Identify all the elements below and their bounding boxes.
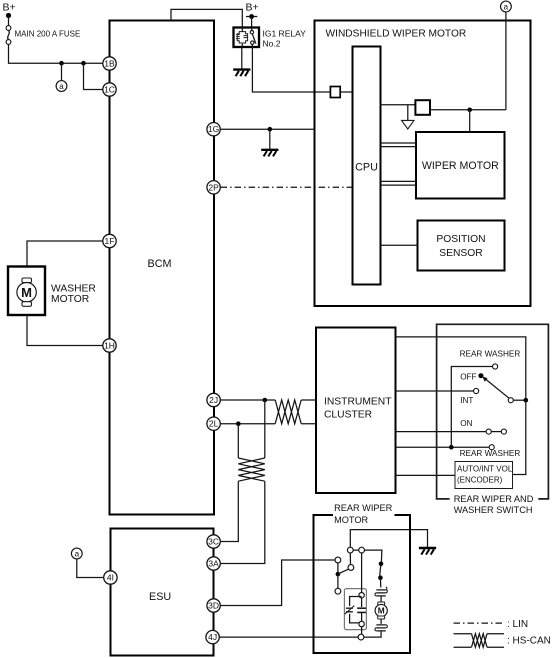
wire junctions down to lower twisted pair (238, 400, 264, 458)
pin 1H (103, 339, 116, 352)
wire H down to node I (361, 627, 363, 635)
pin 4I (104, 571, 117, 584)
POSITION SENSOR box (418, 221, 505, 271)
wire left of pair to 3C (221, 481, 239, 541)
node G (359, 593, 364, 598)
wire BCM top to IG1 relay coil (171, 9, 242, 27)
contact ON right (501, 429, 506, 434)
wire B+ to relay contact (251, 17, 253, 28)
junction dot on line4 (449, 445, 454, 450)
svg-text:WINDSHIELD WIPER MOTOR: WINDSHIELD WIPER MOTOR (326, 29, 467, 40)
wire internal top to ground (right outside) (350, 530, 427, 553)
WINDSHIELD WIPER MOTOR box (315, 21, 531, 307)
svg-text:REAR WASHER: REAR WASHER (460, 350, 521, 359)
wire to choke 1 (379, 578, 381, 588)
svg-text:1F: 1F (105, 236, 115, 246)
svg-text:AUTO/INT VOL: AUTO/INT VOL (457, 465, 513, 474)
connector a (top left) (56, 81, 67, 92)
svg-text:POSITION: POSITION (436, 234, 485, 245)
connector square 1 (relay feed into WWM) (330, 87, 340, 98)
node pivot (336, 572, 341, 577)
svg-text:a: a (75, 550, 80, 559)
junction dot on 2L wire (236, 421, 241, 426)
wire G to capacitor (361, 598, 363, 607)
wires CPU to wiper motor (lower pair) (381, 181, 417, 185)
pin 1F (103, 234, 116, 247)
wire IC line2 to INT contact (396, 390, 473, 392)
svg-text:SENSOR: SENSOR (439, 248, 483, 259)
pin 2J (207, 393, 220, 406)
wire choke2 to node I (364, 631, 381, 637)
wire E up to P1 (349, 553, 351, 565)
ESU box (111, 529, 214, 656)
twisted pair HS-CAN (vertical) (238, 458, 264, 481)
wire between ON contacts (492, 431, 501, 433)
svg-text:WASHER: WASHER (51, 283, 96, 294)
wire relay contact output to wiper motor connector (252, 47, 330, 92)
wire contact to pivot (337, 563, 339, 572)
wire CPU to position sensor (381, 244, 418, 246)
pin 3A (207, 557, 220, 570)
junction dot common (524, 398, 529, 403)
junction dot on 1G wire (268, 127, 273, 132)
junction dot (81, 61, 86, 66)
contact INT (474, 388, 479, 393)
rear wiper motor M (375, 604, 387, 616)
contact rear washer top (493, 364, 498, 369)
contact ON left (486, 429, 491, 434)
junction dot (467, 108, 472, 113)
wire IC line3 to ON contact (396, 431, 486, 433)
wire right of pair to 3A (221, 481, 265, 563)
pin 1B (103, 57, 116, 70)
svg-text:WASHER SWITCH: WASHER SWITCH (454, 505, 533, 515)
wire IC line1 to switch common (396, 337, 526, 400)
svg-text:WIPER MOTOR: WIPER MOTOR (422, 160, 499, 172)
legend HS-CAN twisted pair (454, 634, 505, 648)
svg-text:a: a (504, 3, 509, 12)
svg-text:2P: 2P (208, 182, 219, 192)
svg-text:(ENCODER): (ENCODER) (457, 476, 503, 485)
svg-text:CPU: CPU (355, 162, 378, 174)
svg-text:REAR WIPER AND: REAR WIPER AND (454, 494, 534, 504)
svg-text:OFF: OFF (460, 373, 476, 382)
wire P2 down to node G (361, 553, 363, 592)
relay IG1 RELAY No.2 (234, 28, 260, 48)
svg-text:REAR WIPER: REAR WIPER (334, 503, 393, 513)
wire B+ to fuse (8, 16, 10, 26)
capacitor assembly box (344, 589, 366, 630)
suppressor element Z (346, 608, 353, 612)
wire IC line5 to encoder (396, 474, 455, 476)
wire to connector a (61, 63, 63, 80)
encoder AUTO/INT VOL box (455, 462, 513, 489)
washer motor brush bottom (22, 302, 32, 307)
svg-text:IG1 RELAY: IG1 RELAY (263, 29, 307, 39)
contact F (open) (335, 588, 341, 594)
wire choke to motor (380, 596, 382, 603)
svg-text:INT: INT (460, 396, 473, 405)
wire to ground (269, 129, 271, 149)
REAR WIPER MOTOR box (314, 515, 411, 653)
node thermal bottom (378, 575, 383, 580)
svg-text:2J: 2J (209, 395, 218, 405)
wire motor to choke 2 (380, 619, 382, 624)
wires CPU to wiper motor (upper pair) (381, 143, 417, 147)
motor branch: node thermal top (379, 562, 384, 567)
node I on 4J wire (358, 634, 364, 640)
contact E (348, 565, 354, 571)
svg-text:a: a (59, 82, 64, 91)
svg-text:2L: 2L (209, 419, 219, 429)
svg-text:MOTOR: MOTOR (334, 515, 368, 525)
pin 2L (207, 417, 220, 430)
wire IC line4 to rear washer contact (396, 446, 489, 448)
svg-text:No.2: No.2 (263, 39, 281, 49)
wire 2L to instrument cluster (221, 423, 316, 425)
svg-text:3D: 3D (208, 601, 219, 611)
wire washer motor to 1H (27, 315, 103, 346)
terminal P1 (347, 547, 353, 553)
connector a (top right) (501, 1, 512, 12)
svg-text:B+: B+ (246, 2, 259, 14)
INSTRUMENT CLUSTER box (316, 328, 396, 494)
wire 2J to instrument cluster (221, 399, 316, 401)
pin 3C (207, 535, 220, 548)
wire up to connector a (505, 12, 507, 110)
wire common down to encoder (513, 400, 526, 474)
svg-text:: LIN: : LIN (507, 619, 528, 630)
wire top link (353, 550, 382, 561)
svg-text:ON: ON (460, 419, 472, 428)
connector square 2 (415, 100, 430, 115)
twisted pair HS-CAN (horizontal) (275, 400, 301, 424)
junction dot on 2J wire (263, 398, 268, 403)
washer motor box (8, 267, 45, 316)
wire 2P LIN dash-dot to CPU (221, 186, 353, 188)
wire square2 right to vertical of node a (430, 109, 506, 111)
svg-text:MOTOR: MOTOR (51, 294, 89, 305)
wire junction down to wiper motor (469, 110, 471, 132)
svg-text:BCM: BCM (148, 258, 172, 270)
svg-text:M: M (21, 285, 32, 300)
legend LIN line (454, 622, 505, 624)
connector a (bottom left) (71, 548, 82, 559)
capacitor C (right branch) (357, 608, 366, 612)
rear motor brush bottom (378, 616, 385, 619)
junction dot (59, 61, 64, 66)
pin 3D (207, 599, 220, 612)
node H (359, 621, 364, 626)
svg-text:4J: 4J (208, 632, 217, 642)
wire relay coil to ground (241, 47, 243, 69)
rear motor brush top (378, 602, 385, 605)
terminal P2 (359, 547, 365, 553)
wire 1F to washer motor (27, 241, 103, 267)
choke coil 2 (376, 625, 385, 631)
WIPER MOTOR box (416, 132, 505, 199)
node B+ terminal at relay (246, 16, 257, 18)
open triangle arrow down (402, 120, 414, 129)
pin 1G (207, 123, 220, 136)
op-amp CPU box (353, 47, 381, 285)
node B+ terminal dot (6, 13, 11, 18)
wire 3D to rear wiper motor park switch (221, 560, 335, 606)
pin 4J (206, 630, 219, 643)
wire square1 to CPU (340, 91, 352, 93)
wire 1G to windshield wiper motor (221, 128, 315, 130)
svg-text:CLUSTER: CLUSTER (324, 410, 372, 421)
BCM box (110, 21, 215, 515)
contact lever end (508, 398, 513, 403)
switch lever to upper contact (338, 569, 349, 574)
svg-text:REAR WASHER: REAR WASHER (460, 449, 521, 458)
svg-text:4I: 4I (107, 573, 114, 583)
wire stub to open arrow (407, 105, 409, 121)
switch lever with arrowhead (485, 379, 509, 398)
svg-text:1B: 1B (104, 59, 115, 69)
REAR WIPER AND WASHER SWITCH box (437, 324, 549, 499)
contact rear washer bottom (489, 445, 494, 450)
thermal switch lever (380, 566, 381, 576)
ground at rear wiper motor (419, 548, 436, 555)
svg-text:B+: B+ (3, 2, 16, 14)
wire CPU to square 2 (381, 104, 416, 106)
left branch with suppressor (350, 597, 362, 623)
pin 2P (207, 181, 220, 194)
svg-text:: HS-CAN: : HS-CAN (507, 635, 551, 646)
pin 1C (103, 83, 116, 96)
svg-text:ESU: ESU (149, 591, 171, 603)
fuse MAIN 200 A FUSE (6, 26, 11, 31)
svg-text:MAIN 200 A FUSE: MAIN 200 A FUSE (15, 30, 81, 39)
wire lever contact to common vertical (514, 399, 526, 401)
wire fuse to 1B (9, 44, 103, 63)
svg-text:1H: 1H (104, 341, 115, 351)
wire 4J to rear wiper motor (220, 636, 359, 638)
svg-text:M: M (378, 606, 385, 616)
wire pivot down to open contact (337, 574, 339, 588)
ground under relay (233, 70, 250, 77)
park switch input contact (335, 557, 341, 563)
washer motor M (17, 283, 36, 302)
svg-text:3A: 3A (208, 559, 219, 569)
svg-text:INSTRUMENT: INSTRUMENT (324, 397, 392, 408)
wire rear washer top contact (451, 367, 492, 448)
wire to 1C (84, 63, 103, 89)
washer motor brush top (22, 278, 32, 283)
wire a to 4I (77, 559, 104, 578)
ground at 1G wire (261, 150, 278, 157)
svg-text:1C: 1C (104, 85, 115, 95)
choke coil 1 (376, 590, 385, 596)
node OFF pivot (478, 373, 483, 378)
svg-text:3C: 3C (208, 537, 219, 547)
svg-text:1G: 1G (208, 124, 219, 134)
